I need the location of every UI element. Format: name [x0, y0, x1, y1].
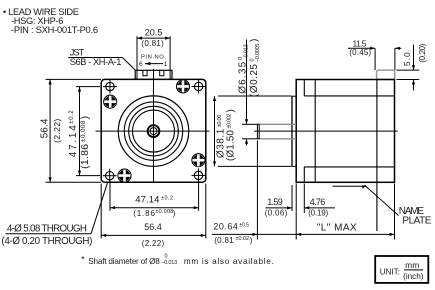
- shaft circle outer: [148, 125, 160, 137]
- dimension L MAX: [296, 184, 394, 240]
- svg-text:(0.81: (0.81: [214, 236, 234, 245]
- label JST S6B-XH-A-1: [68, 47, 122, 67]
- note shaft diameter: [81, 253, 274, 266]
- screw bottom-right: [192, 154, 205, 167]
- svg-text:): ): [225, 109, 236, 112]
- side view name plate line: [376, 80, 378, 232]
- svg-text:(1.86: (1.86: [133, 209, 155, 218]
- svg-text:Shaft diameter of Ø8: Shaft diameter of Ø8: [88, 257, 160, 266]
- circle boss ring 1: [118, 96, 188, 166]
- screw bottom-left: [118, 169, 131, 182]
- dimension dia 6.35 shaft: [237, 39, 261, 146]
- boss bottom edge: [292, 165, 296, 167]
- svg-text:Ø6.35: Ø6.35: [237, 61, 248, 93]
- svg-text:±0.008: ±0.008: [80, 120, 87, 142]
- circle ring 3: [129, 106, 179, 156]
- circle ring 4: [133, 110, 175, 152]
- dimension 20.5 top: [137, 27, 170, 79]
- svg-text:±0.2: ±0.2: [69, 110, 75, 124]
- svg-text:): ): [250, 236, 253, 245]
- unit box: [375, 256, 428, 283]
- svg-text:4-Ø 5.08 THROUGH: 4-Ø 5.08 THROUGH: [7, 224, 87, 235]
- svg-text:S6B - XH-A-1: S6B - XH-A-1: [70, 57, 122, 67]
- svg-text:5.0: 5.0: [402, 52, 412, 66]
- svg-text:±0.5: ±0.5: [239, 223, 249, 229]
- front view vertical centerline: [153, 69, 155, 182]
- dimension 5.0 tab height: [397, 43, 428, 90]
- svg-text:–0.013: –0.013: [161, 260, 177, 266]
- svg-text:(2.22): (2.22): [142, 239, 165, 248]
- svg-text:(0.81): (0.81): [141, 39, 164, 48]
- dimension dia 38.1 boss: [213, 96, 292, 166]
- shaft end face: [257, 124, 259, 139]
- svg-text:mm is also available.: mm is also available.: [184, 257, 274, 266]
- dimension 11.5 top right: [348, 39, 401, 71]
- svg-text:(2.22): (2.22): [52, 118, 62, 142]
- horizontal centerline front view: [96, 130, 210, 132]
- svg-text:0: 0: [165, 253, 168, 259]
- leader 4-dia to hole: [91, 182, 108, 234]
- dimension 20.64 shaft length: [212, 141, 395, 245]
- svg-text:±0.02: ±0.02: [236, 236, 250, 242]
- svg-text:*: *: [81, 255, 85, 266]
- svg-text:20.5: 20.5: [145, 27, 163, 37]
- svg-text:(0.45): (0.45): [349, 48, 371, 57]
- svg-text:(0.06): (0.06): [265, 208, 288, 217]
- screw top-left: [104, 95, 117, 108]
- mounting hole bottom-right: [192, 168, 206, 182]
- dimension 47.14 left: [68, 87, 100, 176]
- svg-text:): ): [173, 209, 176, 218]
- side view flange corner vertical top: [303, 80, 305, 96]
- svg-text:"L" MAX: "L" MAX: [317, 222, 357, 233]
- connector pin slot right: [160, 70, 164, 76]
- svg-text:±0.2: ±0.2: [161, 195, 173, 201]
- note lead wire side: [3, 7, 98, 35]
- svg-text:-PIN : SXH-001T-P0.6: -PIN : SXH-001T-P0.6: [11, 25, 98, 35]
- connector pin slot left: [143, 70, 147, 76]
- svg-text:–0.013: –0.013: [244, 44, 250, 60]
- leader name plate: [332, 185, 398, 216]
- svg-text:56.4: 56.4: [40, 118, 51, 138]
- boss face line: [291, 96, 293, 166]
- boss top edge: [292, 95, 296, 97]
- svg-text:20.64: 20.64: [213, 222, 238, 232]
- svg-text:(Ø1.50: (Ø1.50: [225, 130, 236, 161]
- svg-text:1.59: 1.59: [267, 197, 283, 207]
- svg-text:–0.0005: –0.0005: [255, 44, 261, 63]
- mounting hole top-right: [192, 80, 206, 94]
- svg-text:47.14: 47.14: [135, 194, 159, 205]
- side view front end bell line: [314, 80, 316, 183]
- shaft top line: [259, 123, 296, 125]
- svg-text:): ): [249, 39, 260, 42]
- svg-text:(inch): (inch): [403, 272, 424, 281]
- terminal tab gray: [377, 70, 395, 79]
- dimension 47.14 bottom: [110, 181, 199, 219]
- mounting hole bottom-left: [103, 169, 117, 183]
- screw top-right: [177, 80, 190, 93]
- dimension 1.59 boss depth: [265, 185, 292, 217]
- dimension 56.4 bottom: [101, 184, 206, 249]
- mounting hole top-left: [103, 80, 117, 94]
- label 4-dia 5.08 through: [1, 224, 92, 247]
- svg-text:6: 6: [139, 61, 143, 68]
- label PIN NO. with 6 to 1 arrow: [139, 54, 168, 68]
- svg-text:PLATE: PLATE: [402, 216, 431, 227]
- shaft circle inner: [150, 128, 157, 135]
- svg-text:mm: mm: [405, 260, 419, 270]
- svg-text:±0.06: ±0.06: [217, 115, 223, 128]
- svg-text:(Ø0.25: (Ø0.25: [249, 64, 260, 97]
- svg-text:): ): [79, 116, 91, 120]
- svg-text:56.4: 56.4: [144, 222, 162, 232]
- svg-text:UNIT:: UNIT:: [380, 268, 400, 277]
- svg-text:4.76: 4.76: [310, 197, 326, 207]
- front view square body: [101, 79, 206, 182]
- dimension 4.76 flange: [304, 184, 335, 218]
- svg-text:±0.002: ±0.002: [227, 114, 233, 129]
- svg-text:(0.19): (0.19): [308, 208, 328, 217]
- horizontal centerline side view: [254, 130, 398, 132]
- svg-text:47.14: 47.14: [68, 125, 79, 157]
- svg-text:1: 1: [164, 61, 168, 68]
- connector body: [135, 70, 172, 79]
- side view lamination line bottom: [304, 166, 394, 168]
- svg-text:PIN NO.: PIN NO.: [141, 54, 166, 60]
- svg-text:(0.20): (0.20): [418, 43, 427, 62]
- circle ring 2: [124, 102, 182, 160]
- side view flange corner vertical bottom: [303, 167, 305, 182]
- dimension 56.4 left: [40, 79, 102, 182]
- leader JST to connector: [122, 58, 135, 71]
- svg-text:JST: JST: [70, 47, 85, 57]
- side view body: [296, 80, 394, 183]
- side view lamination line top: [304, 95, 394, 97]
- shaft bottom line: [259, 138, 296, 140]
- svg-text:±0.008: ±0.008: [155, 209, 173, 215]
- name plate label: [399, 206, 432, 227]
- svg-text:(4-Ø 0.20 THROUGH): (4-Ø 0.20 THROUGH): [1, 236, 92, 247]
- svg-text:(1.86: (1.86: [79, 144, 91, 169]
